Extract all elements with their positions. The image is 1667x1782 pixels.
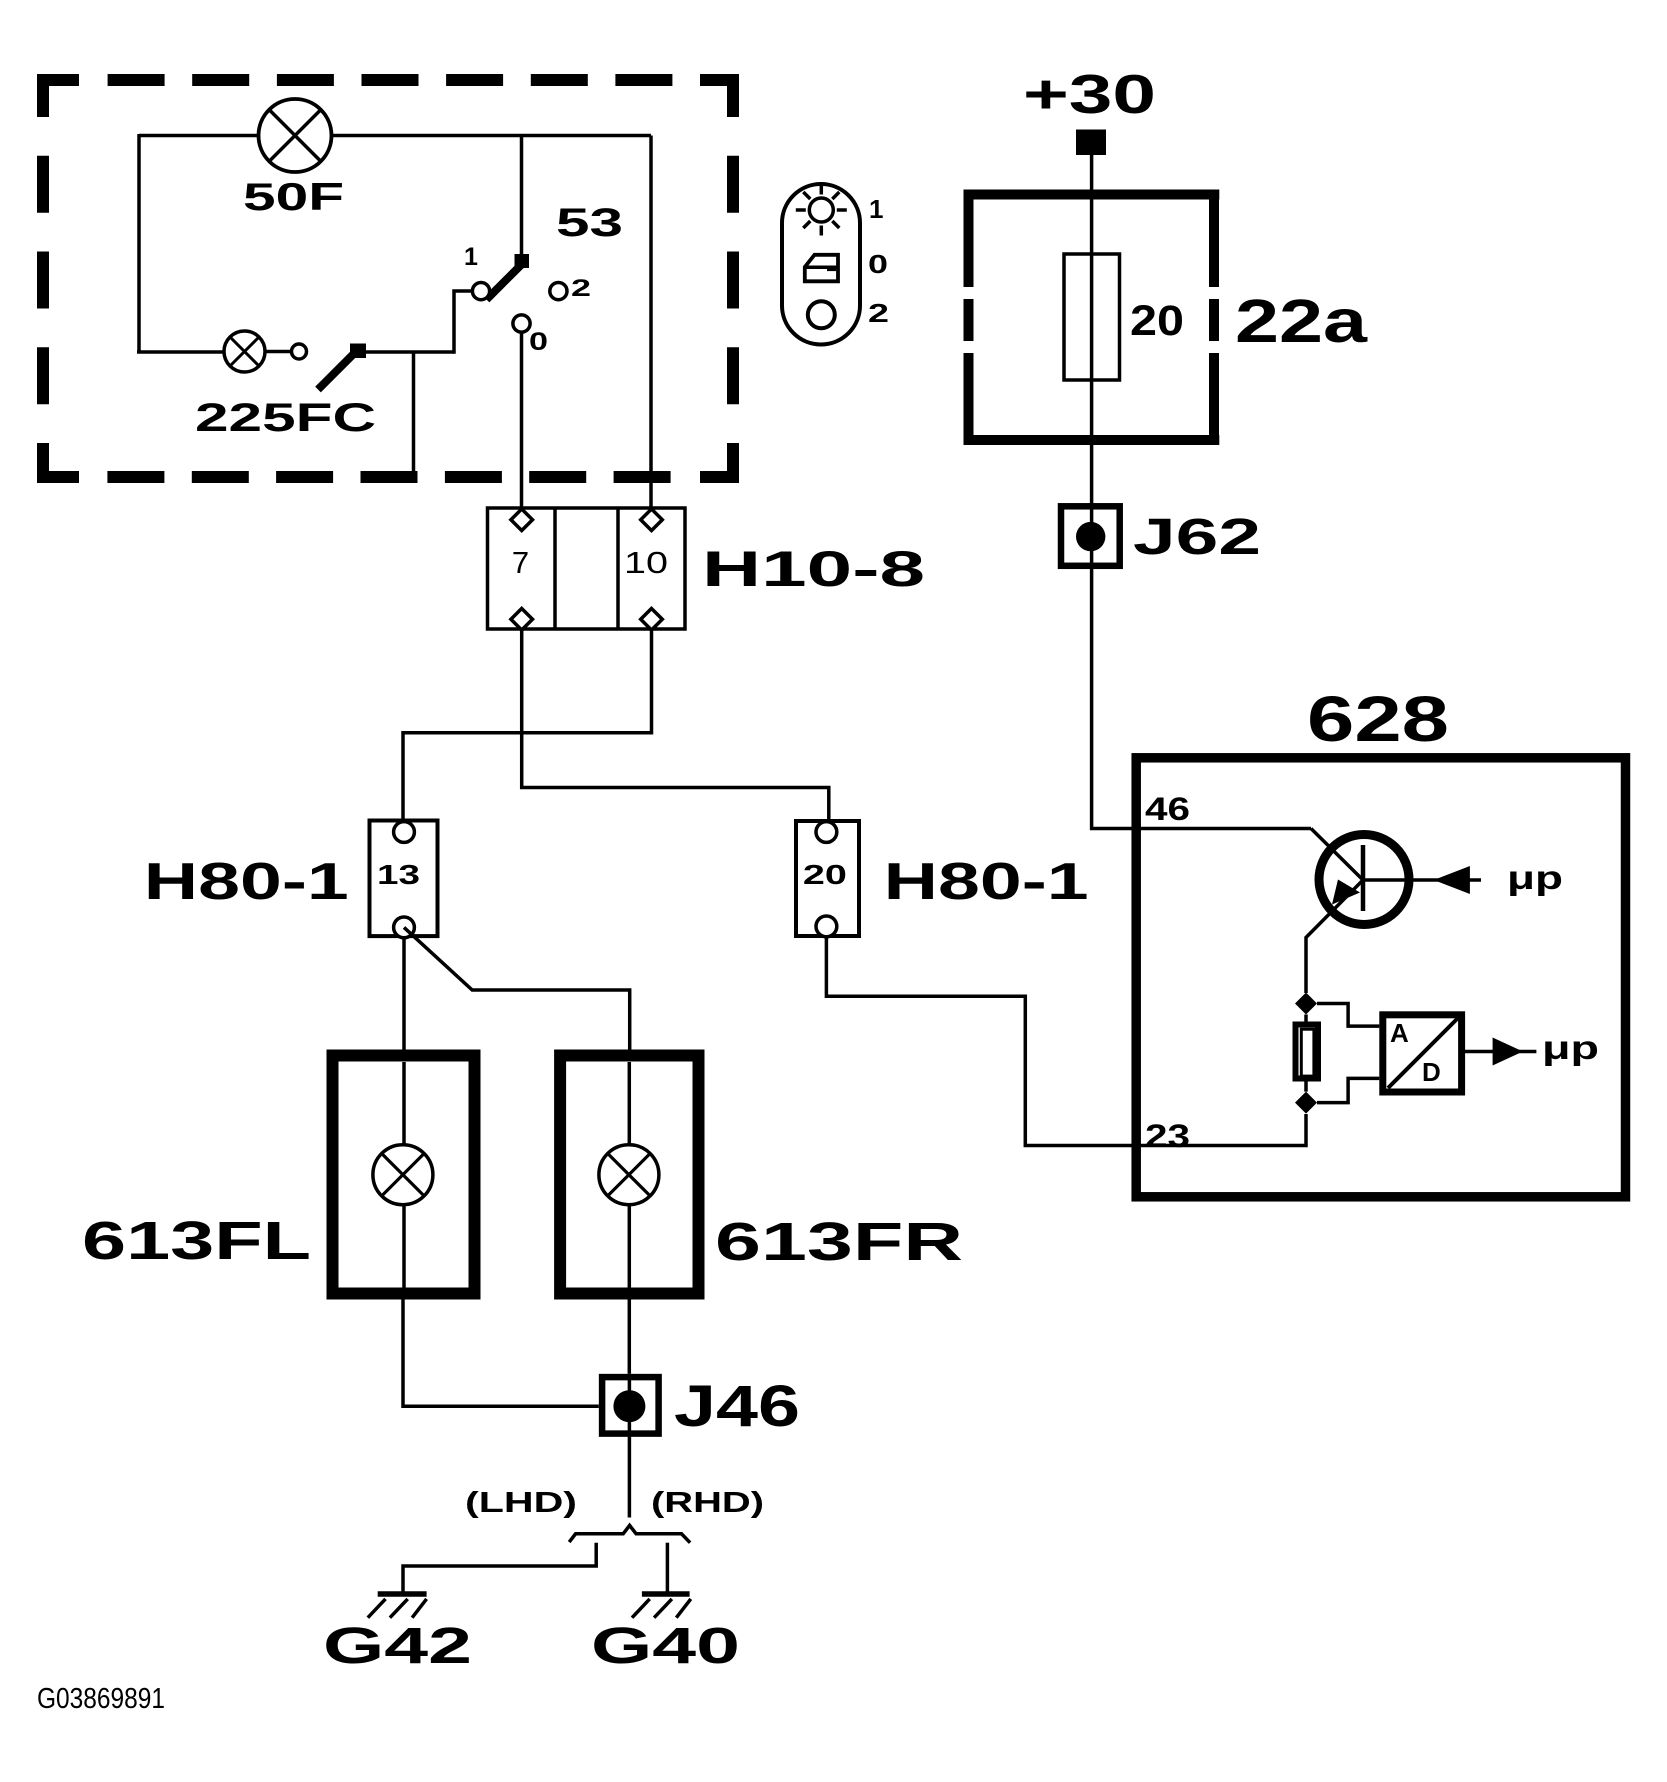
fog lamp 613FR bbox=[560, 1056, 963, 1295]
wire: J62 down to ECU pin 46 bbox=[1092, 569, 1311, 829]
svg-text:628: 628 bbox=[1307, 683, 1449, 755]
arrow to microprocessor (A/D side) bbox=[1493, 1038, 1523, 1066]
lamp 225FC bbox=[195, 331, 376, 440]
switch blade (225FC switch) bbox=[318, 352, 356, 390]
connector H80-1 (pin 20) bbox=[796, 821, 1089, 937]
svg-text:1: 1 bbox=[464, 243, 478, 271]
svg-text:225FC: 225FC bbox=[195, 396, 376, 440]
svg-text:H10-8: H10-8 bbox=[702, 541, 925, 597]
fuse box 22a bbox=[964, 190, 1368, 446]
svg-text:50F: 50F bbox=[243, 176, 344, 219]
wire: 613FL to J46 bbox=[403, 1299, 599, 1406]
svg-text:20: 20 bbox=[803, 859, 847, 890]
svg-text:1: 1 bbox=[869, 194, 883, 224]
wire: battery feed through fuse to J62 bbox=[1090, 155, 1094, 503]
ECU 628 bbox=[1136, 683, 1625, 1197]
ground G40 bbox=[591, 1594, 740, 1674]
wire: pin 13 to 613FL bbox=[402, 936, 406, 1146]
svg-text:53: 53 bbox=[556, 201, 623, 245]
wire: 225FC feed bbox=[137, 350, 224, 354]
svg-text:613FL: 613FL bbox=[82, 1211, 311, 1271]
wire: drop to enclosure edge bbox=[412, 352, 416, 477]
svg-text:2: 2 bbox=[868, 298, 889, 328]
svg-text:H80-1: H80-1 bbox=[144, 853, 349, 911]
fog lamp 613FL bbox=[82, 1056, 475, 1295]
svg-text:613FR: 613FR bbox=[715, 1212, 963, 1272]
svg-text:G03869891: G03869891 bbox=[37, 1683, 165, 1715]
svg-text:D: D bbox=[1422, 1057, 1441, 1087]
lamp 50F bbox=[243, 99, 344, 219]
svg-text:G40: G40 bbox=[591, 1617, 740, 1674]
ground G42 bbox=[323, 1594, 472, 1674]
wire: pin 13 branch to 613FR bbox=[404, 927, 630, 1146]
svg-text:μp: μp bbox=[1507, 859, 1563, 896]
resistor (sense) bbox=[1296, 1025, 1319, 1079]
dashed enclosure (switch assembly) bbox=[43, 80, 733, 477]
sun icon (position 1) bbox=[809, 198, 833, 222]
svg-text:22a: 22a bbox=[1235, 287, 1368, 355]
svg-text:7: 7 bbox=[512, 545, 529, 580]
switch 53 bbox=[464, 136, 623, 357]
wire: 613FR down through J46 bbox=[628, 1299, 632, 1374]
wire: diamond to resistor bbox=[1304, 1015, 1308, 1092]
wire: pin 7 down, across to H80-1 pin 20 bbox=[522, 630, 829, 822]
svg-text:(LHD): (LHD) bbox=[465, 1487, 577, 1519]
svg-text:0: 0 bbox=[529, 328, 548, 356]
svg-text:20: 20 bbox=[1130, 297, 1184, 345]
wire: LHD branch bbox=[403, 1543, 596, 1592]
junction J62 bbox=[1061, 503, 1261, 569]
contact 0 bbox=[513, 315, 530, 332]
junction diamond lower bbox=[1295, 1092, 1317, 1114]
connector H80-1 (pin 13) bbox=[144, 821, 438, 938]
contact 1 bbox=[472, 283, 489, 300]
wire: feed from 50F rail to pivot bbox=[520, 136, 524, 257]
wire: 50F right to switch column bbox=[331, 134, 651, 138]
connector H10-8 bbox=[488, 508, 926, 630]
svg-text:46: 46 bbox=[1145, 791, 1190, 827]
svg-text:+30: +30 bbox=[1023, 63, 1156, 125]
svg-text:(RHD): (RHD) bbox=[651, 1487, 764, 1519]
svg-text:μp: μp bbox=[1542, 1029, 1599, 1066]
pin 10 bottom bbox=[641, 609, 663, 631]
wire: upper tap to A/D bbox=[1317, 1004, 1379, 1027]
pin 7 top bbox=[511, 509, 533, 531]
wire: RHD branch bbox=[666, 1543, 670, 1592]
svg-text:23: 23 bbox=[1145, 1118, 1190, 1154]
svg-text:13: 13 bbox=[377, 859, 420, 890]
svg-text:J46: J46 bbox=[674, 1374, 800, 1439]
pin 7 bottom bbox=[511, 609, 533, 631]
svg-text:2: 2 bbox=[571, 275, 591, 302]
wire: switch output to node bbox=[364, 350, 454, 354]
pin 10 top bbox=[641, 509, 663, 531]
power terminal +30 bbox=[1023, 63, 1156, 155]
junction diamond upper bbox=[1295, 993, 1317, 1015]
transistor bbox=[1306, 829, 1481, 994]
wire: pin 10 down, across to H80-1 pin 13 bbox=[403, 630, 652, 822]
wire: A/D output bbox=[1465, 1050, 1536, 1054]
wire: lower tap to A/D bbox=[1317, 1078, 1379, 1102]
A/D converter bbox=[1383, 1015, 1462, 1092]
wire: right rail down to H10-8 pin 10 bbox=[649, 136, 653, 512]
svg-text:J62: J62 bbox=[1133, 508, 1261, 565]
branch brace bbox=[569, 1525, 690, 1542]
wire: riser to contact 1 bbox=[454, 291, 473, 354]
door icon (position 0) bbox=[805, 255, 838, 281]
switch position legend oval bbox=[782, 184, 889, 345]
wire: left vertical bbox=[137, 134, 141, 352]
contact 2 bbox=[550, 283, 567, 300]
wire: pin 20 down to ECU pin 23 bbox=[826, 936, 1306, 1146]
svg-text:0: 0 bbox=[868, 249, 888, 279]
fuse 20 bbox=[1064, 254, 1184, 380]
wire: J46 down to branch bbox=[628, 1437, 632, 1518]
junction J46 bbox=[602, 1374, 800, 1439]
svg-text:A: A bbox=[1390, 1018, 1409, 1048]
circle icon (position 2) bbox=[808, 301, 835, 328]
svg-text:H80-1: H80-1 bbox=[884, 853, 1089, 911]
svg-text:10: 10 bbox=[624, 545, 668, 580]
wire: 50F left feed bbox=[139, 134, 259, 138]
arrow to microprocessor (collector side) bbox=[1434, 866, 1470, 894]
wire: contact 0 down to H10-8 pin 7 bbox=[520, 332, 524, 511]
svg-text:G42: G42 bbox=[323, 1617, 472, 1674]
